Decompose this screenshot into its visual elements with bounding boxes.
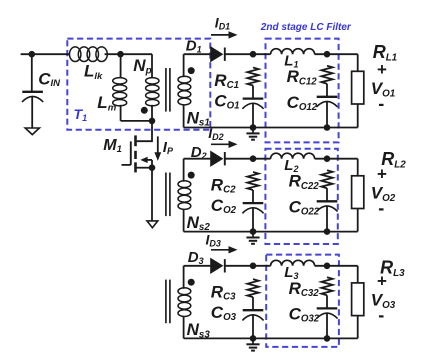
diode D3: [210, 258, 225, 274]
transistor M1 (power MOSFET): [122, 121, 153, 172]
wire CO3 bottom lead: [252, 315, 254, 338]
wire output 1 bottom rail: [184, 127, 358, 129]
junction rail 3 / CO3: [250, 335, 257, 342]
wire RC2 to CO2: [252, 190, 254, 203]
inductor Llk (leakage inductance): [70, 47, 108, 62]
inductor L1 (2nd stage): [271, 49, 315, 55]
junction rail 3 / CO32: [324, 335, 331, 342]
svg-text:+: +: [377, 60, 387, 79]
winding Ns1 (secondary 1): [178, 76, 191, 105]
wire Ns1 bottom lead: [183, 105, 185, 128]
junction L1 / RC12 branch: [324, 51, 331, 58]
junction rail 1 / CO12: [324, 124, 331, 131]
wire load R_L3 top lead: [357, 266, 359, 283]
inductor Lm (magnetizing inductance): [113, 78, 127, 106]
phase dot Np: [141, 107, 148, 114]
wire Lm top lead: [120, 54, 122, 78]
junction rail 2 / CO22: [324, 228, 331, 235]
wire CO2 bottom lead: [252, 208, 254, 232]
wire Np top lead: [151, 54, 153, 78]
wire output 3 bottom rail: [184, 337, 358, 339]
capacitor CO2: [242, 203, 263, 213]
svg-text:+: +: [377, 272, 387, 291]
wire CIN top lead: [31, 54, 33, 92]
resistor RC3 (ESR): [247, 279, 258, 297]
resistor RL1 (load): [352, 71, 364, 104]
junction L2 / RC22 branch: [324, 155, 331, 162]
wire RC1 to CO1: [252, 86, 254, 99]
wire Ns1 top lead: [183, 54, 185, 77]
junction D3 output / RC3 branch: [250, 263, 257, 270]
current arrow ID2: [211, 141, 238, 148]
wire CO12 bottom lead: [326, 102, 328, 128]
capacitor CIN: [22, 92, 43, 102]
wire Ns1 to D1 anode: [184, 53, 211, 55]
diode D2: [210, 151, 225, 167]
wire L1 to load R_L1: [315, 53, 358, 55]
capacitor CO3: [242, 310, 263, 320]
junction D2 output / RC2 branch: [250, 155, 257, 162]
resistor RL2 (load): [352, 176, 364, 209]
wire Llk to Np top: [105, 53, 152, 55]
output-3 2nd stage LC filter dashed box: [266, 255, 339, 347]
wire Ns3 bottom lead: [183, 316, 185, 338]
junction rail 2 / CO2: [250, 228, 257, 235]
resistor RC22 (ESR of CO22): [321, 170, 332, 188]
wire load R_L3 bottom lead: [357, 316, 359, 339]
wire Ns2 bottom lead: [183, 209, 185, 232]
core T1 section 3 (parallel bars): [166, 280, 170, 324]
winding Np (primary): [146, 78, 159, 106]
capacitor CO1: [242, 99, 263, 109]
wire load R_L2 bottom lead: [357, 209, 359, 232]
output-2 2nd stage LC filter dashed box: [265, 149, 337, 244]
wire output 2 bottom rail: [184, 231, 358, 233]
current arrow IP: [154, 136, 161, 161]
wire CIN bottom lead: [31, 97, 33, 128]
junction Llk / Lm / Np: [117, 51, 124, 58]
current arrow ID1: [211, 31, 238, 38]
wire RC22 to CO22: [326, 188, 328, 201]
ground output 2 (earth bars): [246, 232, 259, 244]
phase dot Ns2: [188, 172, 195, 179]
wire L3 to load R_L3: [315, 265, 358, 267]
svg-text:2nd stage LC Filter: 2nd stage LC Filter: [260, 22, 352, 33]
wire input node to Llk: [21, 53, 70, 55]
svg-text:-: -: [378, 94, 384, 114]
ground M1 source (open triangle): [147, 221, 158, 228]
junction Np bottom / drain node: [149, 118, 156, 125]
wire D3 cathode to filter L3: [225, 265, 270, 267]
capacitor CO22: [316, 201, 337, 211]
wire L2 to load R_L2: [315, 158, 358, 160]
winding Ns3 (secondary 3): [178, 288, 191, 317]
wire load R_L1 bottom lead: [357, 104, 359, 128]
wire CO22 bottom lead: [326, 206, 328, 232]
wire RC32 to CO32: [326, 295, 328, 308]
junction M1 source node: [149, 164, 156, 171]
wire RC12 to CO12: [326, 84, 328, 97]
ground output 1 (earth bars): [246, 128, 259, 140]
wire Ns2 top lead: [183, 159, 185, 182]
inductor L2 (2nd stage): [271, 153, 315, 159]
capacitor CO12: [316, 97, 337, 107]
junction L3 / RC32 branch: [324, 263, 331, 270]
phase dot Ns1: [188, 67, 195, 74]
junction D1 output / RC1 branch: [250, 51, 257, 58]
svg-text:-: -: [378, 198, 384, 218]
transformer T1 dashed boundary box: [67, 39, 210, 130]
wire load R_L2 top lead: [357, 159, 359, 176]
phase dot Ns3: [188, 279, 195, 286]
wire load R_L1 top lead: [357, 54, 359, 71]
resistor RC2 (ESR): [247, 172, 258, 190]
diode D1: [210, 46, 225, 62]
wire M1 source to ground: [151, 168, 153, 221]
winding Ns2 (secondary 2): [178, 181, 191, 210]
output-1 2nd stage LC filter dashed box: [266, 39, 339, 143]
svg-text:-: -: [378, 305, 384, 325]
svg-text:+: +: [377, 165, 387, 184]
wire CO32 bottom lead: [326, 313, 328, 338]
wire CO1 bottom lead: [252, 103, 254, 127]
ground output 3 (earth bars): [246, 338, 259, 350]
wire D2 cathode to filter L2: [225, 158, 270, 160]
resistor RC32 (ESR of CO32): [321, 277, 332, 295]
resistor RC12 (ESR of CO12): [321, 66, 332, 84]
ground input (open triangle): [25, 128, 39, 135]
wire Ns2 to D2 anode: [184, 158, 211, 160]
resistor RL3 (load): [352, 283, 364, 316]
wire D1 cathode to filter L1: [225, 53, 270, 55]
core T1 section 2 (parallel bars): [166, 173, 170, 217]
wire primary bottom rail: [121, 120, 152, 122]
wire Ns3 top lead: [183, 266, 185, 289]
core T1 section 1 (parallel bars): [166, 68, 170, 112]
junction rail 1 / CO1: [250, 124, 257, 131]
wire Np bottom lead: [151, 105, 153, 121]
wire RC3 to CO3: [252, 297, 254, 310]
wire Ns3 to D3 anode: [184, 265, 211, 267]
resistor RC1 (ESR): [247, 68, 258, 86]
junction input node / CIN tap: [29, 51, 36, 58]
wire Lm bottom lead: [120, 105, 122, 121]
inductor L3 (2nd stage): [271, 260, 315, 266]
current arrow ID3: [211, 246, 238, 253]
capacitor CO32: [316, 308, 337, 318]
